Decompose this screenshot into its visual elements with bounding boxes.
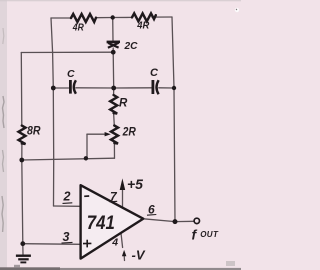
capacitor C (right) <box>153 80 159 94</box>
wire left rail upper <box>20 53 23 126</box>
wire middle center <box>76 87 114 89</box>
wire middle right <box>159 87 174 89</box>
op-amp U1 741 triangle <box>81 185 144 258</box>
resistor 4R (left) <box>71 14 96 22</box>
+5 supply arrow <box>120 178 126 190</box>
wire middle center-right <box>114 87 152 89</box>
output terminal circle <box>194 218 199 223</box>
wire R to 2R link <box>113 113 116 126</box>
wire inner left vertical (pin2 riser) <box>51 18 54 206</box>
wire 2C top lead <box>112 18 114 41</box>
wire 8R top link <box>21 51 113 53</box>
node middle right <box>172 86 176 90</box>
svg-text:2C: 2C <box>123 41 138 52</box>
node 2C bottom <box>111 50 116 55</box>
wiper arrowhead <box>105 132 111 136</box>
wire ground stub <box>22 244 24 255</box>
wire left rail lower <box>22 144 23 244</box>
wire top left segment <box>51 17 71 19</box>
svg-text:4R: 4R <box>136 21 150 32</box>
capacitor 2C <box>107 42 120 48</box>
wire 2C bottom lead <box>112 48 115 88</box>
svg-text:C: C <box>67 68 75 80</box>
svg-text:4R: 4R <box>72 23 85 34</box>
wire 2R bottom lead <box>113 143 115 158</box>
svg-text:-V: -V <box>132 248 146 263</box>
minus mark inverting input <box>84 195 89 197</box>
resistor R <box>110 95 117 114</box>
wire pin 7 <box>122 190 124 208</box>
wire wiper arm <box>87 133 105 135</box>
wire top between R1 and node <box>96 17 113 19</box>
wire wiper down <box>86 134 88 158</box>
svg-text:2R: 2R <box>122 126 137 138</box>
wire middle left <box>53 87 68 89</box>
wire to pin 2 <box>54 205 81 207</box>
wire to pin 3 <box>23 243 81 246</box>
svg-text:C: C <box>150 67 159 79</box>
node wiper corner <box>84 156 88 160</box>
svg-text:+5: +5 <box>127 176 143 192</box>
wire pin 4 stub <box>121 233 123 248</box>
svg-text:OUT: OUT <box>200 230 219 239</box>
potentiometer 2R <box>111 126 118 144</box>
resistor 4R (right) <box>132 13 156 21</box>
node output junction <box>173 219 178 224</box>
ground <box>16 256 31 263</box>
svg-text:4: 4 <box>111 236 118 248</box>
wire -V arrow tail <box>123 256 125 261</box>
wire bottom return <box>22 158 115 160</box>
svg-text:741: 741 <box>87 212 115 234</box>
wire right rail <box>172 17 175 222</box>
resistor 8R <box>19 126 26 145</box>
wire top right segment <box>152 16 172 18</box>
node left rail bottom wire <box>19 158 24 163</box>
node pin3 rail <box>20 241 25 246</box>
node middle center <box>111 86 116 91</box>
wire R top lead <box>113 88 115 95</box>
node top middle <box>111 15 115 19</box>
wire output <box>144 219 195 222</box>
wire top node to R2 <box>113 16 132 18</box>
svg-text:8R: 8R <box>27 124 41 138</box>
-V supply arrow <box>122 250 127 256</box>
svg-text:2: 2 <box>63 190 71 204</box>
plus mark noninverting input <box>83 240 91 248</box>
capacitor C (left) <box>70 80 76 94</box>
node middle left <box>51 86 56 91</box>
svg-text:R: R <box>119 98 128 110</box>
